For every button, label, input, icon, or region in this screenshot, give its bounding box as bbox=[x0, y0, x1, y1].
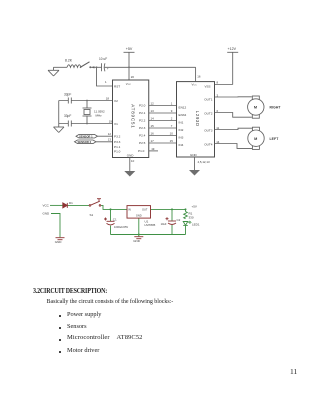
wire OUT4 to motor2 bottom bbox=[215, 144, 253, 149]
ground (chip2, filled) bbox=[189, 170, 200, 176]
eagle grey labels bbox=[43, 201, 200, 244]
motor M2 LEFT bbox=[248, 127, 264, 149]
wire: X2 row bbox=[59, 100, 113, 102]
chip2 pin numbers left bbox=[170, 75, 219, 144]
capacitor 33pF top bbox=[68, 98, 71, 104]
microcontroller U1 AT89C51 box bbox=[113, 80, 149, 158]
capacitor C2 (polarized) bbox=[166, 217, 177, 224]
eagle gnd symbol (regulator) bbox=[134, 237, 143, 239]
switch S1 bbox=[89, 199, 101, 207]
wire diode to switch bbox=[68, 204, 90, 206]
chip2 pin numbers right bbox=[198, 93, 220, 164]
capacitor C1 (polarized) bbox=[104, 218, 115, 225]
wire: left rail down to ground bbox=[58, 101, 60, 128]
chip1 P2 labels bbox=[139, 104, 146, 146]
wire regulator out rail bbox=[151, 208, 186, 210]
capacitor C 10uF plates bbox=[102, 63, 106, 71]
capacitor 33pF bottom bbox=[68, 121, 71, 127]
wire: RST pin wire bbox=[97, 67, 113, 86]
wire VCC row bbox=[50, 204, 63, 206]
resistor 8.2K bbox=[67, 65, 81, 68]
wire regulator gnd stub bbox=[138, 218, 140, 236]
label IN OUT GND of regulator bbox=[128, 207, 148, 217]
diode D1 bbox=[63, 203, 68, 208]
node SENSOR1 flag bbox=[76, 134, 113, 138]
page number bbox=[290, 367, 297, 376]
wire: chip2 gnd stub bbox=[194, 157, 196, 170]
power +12V symbol bbox=[227, 52, 238, 84]
wire GND row left bbox=[51, 214, 60, 238]
ground (top-left) bbox=[48, 67, 59, 76]
switch (reset pushbutton) blade bbox=[80, 62, 95, 69]
ground (chip1, filled) bbox=[124, 171, 135, 177]
wire bus P2.3-IN2 bbox=[149, 127, 177, 129]
resistor R1 zigzag (green) bbox=[184, 212, 188, 219]
wire bus P2.0-EN12 bbox=[149, 105, 177, 107]
crystal Y1 11.0592MHz bbox=[83, 100, 92, 125]
node SENSOR2 flag bbox=[75, 140, 113, 144]
wire bottom rail bbox=[111, 234, 186, 236]
wire OUT1 to motor1 top bbox=[215, 96, 252, 98]
power +5V symbol bbox=[124, 52, 135, 80]
heading 3.2 CIRCUIT DESCRIPTION bbox=[33, 287, 107, 295]
wire OUT2 to motor1 bottom bbox=[215, 113, 252, 118]
motor driver U2 L293D box bbox=[177, 82, 215, 157]
wire: +5V rail to chip2 vcc bbox=[105, 66, 196, 68]
wire bus P2.5-IN4 bbox=[149, 142, 177, 144]
wire: VSS pin8 to +12V bbox=[215, 84, 233, 86]
wire OUT3 to motor2 top bbox=[215, 128, 253, 129]
wire: reset rail left bbox=[54, 66, 68, 68]
body line bbox=[47, 299, 174, 305]
ground (crystal area) bbox=[54, 127, 65, 133]
wire: chip2 vcc pin16 stub bbox=[195, 67, 197, 81]
chip2 labels inside bbox=[179, 83, 213, 157]
wire: X1 row bbox=[59, 123, 113, 125]
wire C1 vertical bbox=[110, 209, 112, 234]
wire bus P2.4-IN3 bbox=[149, 135, 177, 137]
chip1 pin numbers left bbox=[105, 80, 112, 141]
wire C2 vertical bbox=[171, 209, 173, 234]
motor M1 RIGHT bbox=[248, 96, 264, 118]
schematic small text layer bbox=[64, 47, 281, 164]
regulator U1 LM7805 box bbox=[127, 206, 151, 219]
junction dots (green) bbox=[110, 208, 187, 235]
eagle gnd symbol (input) bbox=[56, 238, 65, 240]
wire: P1.0 stub right bbox=[149, 150, 158, 152]
chip1 labels inside bbox=[114, 82, 145, 157]
LED LED1 (green) bbox=[183, 221, 191, 226]
wire junction to capacitor bbox=[90, 66, 101, 68]
wire LED branch vertical bbox=[185, 209, 187, 234]
wire: chip1 gnd stub bbox=[129, 158, 131, 172]
wire bus P2.2-IN1 bbox=[149, 120, 177, 122]
wire bus P2.1-EN34 bbox=[149, 112, 177, 114]
wire switch to regulator bbox=[101, 205, 128, 209]
bullet list bbox=[59, 315, 61, 317]
chip1 pin numbers right bbox=[131, 75, 155, 163]
